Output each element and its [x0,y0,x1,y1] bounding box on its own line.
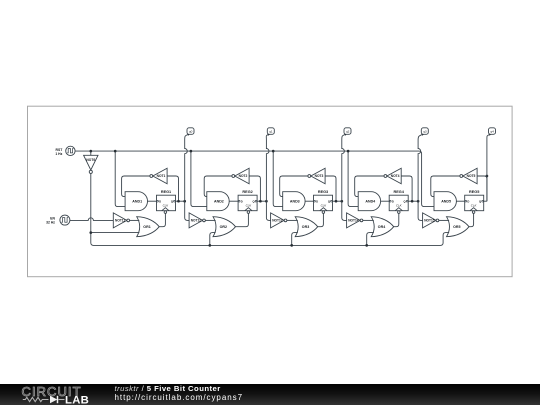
wire REG5 Q output [484,200,487,202]
junction Q0 / q0 net [183,200,186,203]
flag pointer q1 [268,134,270,136]
wire bus to OR4 lower input [367,233,374,246]
node q2 flag [344,128,351,135]
wire NOT4 output to AND4 upper input [355,176,384,197]
svg-text:Q: Q [252,199,254,203]
junction bus / OR4 tick [365,244,368,247]
wire q0 vertical net [185,140,188,201]
clock bubble REG2 [247,211,250,214]
svg-text:NOT2: NOT2 [239,174,248,178]
svg-text:AND2: AND2 [214,200,224,204]
svg-text:q4: q4 [490,130,494,134]
svg-text:NOT6: NOT6 [86,158,95,162]
voltage source V2 EN 32 Hz [60,215,70,225]
wire NOT15 output to OR5 upper input [439,219,449,221]
logo diode symbol [50,396,57,403]
svg-text:Q: Q [171,199,173,203]
svg-text:OR5: OR5 [453,225,460,229]
NOT gate NOT6 (RST inverter) [90,151,92,155]
svg-text:AND3: AND3 [290,200,300,204]
junction NOT6 rail / OR1 branch [89,231,92,234]
wire q2 vertical net [342,140,345,201]
flag pointer q3 [422,134,424,136]
flag pointer q4 [489,134,491,136]
wire q2 flag lead [342,134,345,140]
svg-text:CLK: CLK [396,204,403,208]
svg-text:NOT5: NOT5 [467,174,476,178]
clock bubble REG4 [398,211,401,214]
node q1 flag [267,128,274,135]
wire AND3 output to REG3 D [305,200,313,202]
AND gate AND4 [358,192,380,211]
node q4 flag [489,128,496,135]
wire NOT12 output to OR2 upper input [205,219,215,221]
svg-text:OR3: OR3 [302,225,309,229]
svg-text:CLK: CLK [246,204,253,208]
junction bus / OR2 tick [208,244,211,247]
svg-text:D: D [467,199,469,203]
wire NOT2 output to AND2 upper input [204,176,232,197]
junction RST / NOT6 [89,150,92,153]
svg-text:OR4: OR4 [378,225,385,229]
node q0 flag [187,128,194,135]
svg-text:D: D [316,199,318,203]
wire REG4 Q output [408,200,418,202]
junction Q0 / NOT1 input [177,200,180,203]
junction Q3 / NOT4 input [411,200,414,203]
NOT gate NOT11 (clock gate) [113,213,127,228]
NOT gate NOT4 (top feedback inverter) [387,168,401,184]
svg-text:Q: Q [479,199,481,203]
wire NOT6 to OR1 lower input [91,232,140,234]
svg-text:AND4: AND4 [365,200,375,204]
wire NOT1 output to AND1 upper input [122,176,150,197]
svg-text:D: D [392,199,394,203]
wire OR2 output to REG2 CLK [236,213,249,227]
logo resistor zigzag [23,397,49,401]
wire NOT1 input from REG1 Q [167,176,178,201]
svg-text:Q: Q [404,199,406,203]
junction Q2 / q2 net [340,200,343,203]
wire q3 to NOT15 input [418,201,423,220]
junction RST bus / stage 1 drop [114,150,117,153]
svg-text:LAB: LAB [65,395,89,405]
svg-text:OR2: OR2 [220,225,227,229]
clock edge caret REG4 [395,208,402,211]
svg-text:q1: q1 [269,130,273,134]
OR gate OR1 [137,217,160,237]
OR gate OR4 [371,217,394,237]
clock bubble REG3 [322,211,325,214]
wire RST drop to AND2 lower input [191,151,207,207]
svg-text:AND1: AND1 [132,200,142,204]
wire q1 to NOT13 input [266,201,270,220]
junction RST bus / stage 3 drop [272,150,275,153]
svg-text:NOT4: NOT4 [391,174,400,178]
clock edge caret REG2 [245,208,252,211]
svg-text:32 Hz: 32 Hz [46,220,55,224]
svg-text:REG2: REG2 [242,190,252,194]
svg-text:NOT15: NOT15 [424,219,435,223]
NOT gate NOT15 (clock gate) [423,213,437,228]
NOT gate NOT12 (clock gate) [189,213,203,228]
svg-text:NOT13: NOT13 [272,219,283,223]
junction RST bus / stage 4 drop [347,150,350,153]
svg-text:Q: Q [328,199,330,203]
wire q0 to NOT12 input [185,201,189,220]
D flip-flop REG4 [389,195,408,211]
wire RST horizontal bus from V1 across stages, ends down into AND5 [75,151,434,207]
svg-text:OR1: OR1 [143,225,150,229]
wire NOT11 output to OR1 upper input [129,219,139,221]
clock bubble REG1 [164,211,167,214]
wire AND4 output to REG4 D [381,200,390,202]
AND gate AND1 [125,192,147,211]
NOT gate NOT14 (clock gate) [347,213,361,228]
svg-text:REG4: REG4 [394,190,405,194]
NOT gate NOT3 (top feedback inverter) [311,168,325,184]
NOT gate NOT1 (top feedback inverter) [153,168,167,184]
wire NOT14 output to OR4 upper input [363,219,374,221]
svg-text:REG3: REG3 [318,190,328,194]
wire AND5 output to REG5 D [456,200,464,202]
flag pointer q0 [187,134,189,136]
wire OR4 output to REG4 CLK [394,213,399,227]
svg-text:q3: q3 [423,130,427,134]
flag pointer q2 [344,134,346,136]
wire bus to OR3 lower input [292,233,298,246]
voltage source V1 RST 1 Hz [66,146,75,155]
wire AND1 output to REG1 D [148,200,157,202]
svg-text:CLK: CLK [321,204,328,208]
svg-text:NOT1: NOT1 [157,174,166,178]
NOT gate NOT2 (top feedback inverter) [235,168,249,184]
wire NOT4 input from REG4 Q [401,176,412,201]
wire q3 vertical net [418,140,421,201]
wire q2 to NOT14 input [342,201,347,220]
clock bubble REG5 [472,211,475,214]
wire RST drop to AND4 lower input [348,151,358,207]
svg-text:D: D [241,199,243,203]
wire NOT3 input from REG3 Q [325,176,336,201]
wire RST drop to AND3 lower input [273,151,283,207]
wire AND2 output to REG2 D [229,200,238,202]
wire REG2 Q output [257,200,266,202]
junction Q2 / NOT3 input [335,200,338,203]
svg-text:CLK: CLK [163,204,170,208]
junction Q1 / q1 net [265,200,268,203]
wire NOT6 output down left rail [91,173,449,245]
wire q4 flag lead [487,134,490,140]
wire q4 vertical net [486,140,488,201]
AND gate AND3 [283,192,305,211]
wire NOT5 output to AND5 upper input [431,176,460,197]
wire OR1 output to REG1 CLK [159,213,165,227]
junction q4 / NOT5 input [486,175,489,178]
svg-text:1 Hz: 1 Hz [55,152,62,156]
wire bus to OR2 lower input [210,233,216,246]
D flip-flop REG5 [465,195,484,211]
NOT gate NOT5 (top feedback inverter) [463,168,477,184]
svg-text:q2: q2 [346,130,350,134]
wire q1 vertical net [266,140,269,201]
node q3 flag [421,128,428,135]
wire RST drop to AND1 lower input [115,151,125,207]
D flip-flop REG2 [238,195,257,211]
NOT gate NOT13 (clock gate) [271,213,285,228]
OR gate OR5 [447,217,470,237]
svg-text:NOT14: NOT14 [348,219,359,223]
junction RST bus / stage 2 drop [190,150,193,153]
svg-text:REG1: REG1 [161,190,171,194]
wire NOT2 input from REG2 Q [249,176,260,201]
svg-text:NOT3: NOT3 [315,174,324,178]
AND gate AND2 [207,192,229,211]
OR gate OR3 [295,217,318,237]
wire q1 flag lead [266,134,268,140]
D flip-flop REG1 [157,195,176,211]
svg-text:CLK: CLK [471,204,478,208]
wire NOT5 input from REG5 Q [477,176,487,201]
OR gate OR2 [213,217,236,237]
wire REG3 Q output [333,200,342,202]
wire EN to NOT11 input (hops NOT6 rail) [70,218,113,221]
wire q3 flag lead [418,134,422,140]
clock edge caret REG1 [162,208,169,211]
svg-text:D: D [159,199,161,203]
svg-text:NOT12: NOT12 [191,219,202,223]
wire q0 flag lead [185,134,189,140]
wire NOT3 output to AND3 upper input [280,176,308,197]
clock edge caret REG3 [320,208,327,211]
svg-text:REG5: REG5 [469,190,479,194]
wire REG1 Q output [176,200,185,202]
svg-text:AND5: AND5 [441,200,451,204]
clock edge caret REG5 [470,208,477,211]
D flip-flop REG3 [314,195,333,211]
schematic border frame [28,106,513,277]
wire NOT13 output to OR3 upper input [287,219,298,221]
wire OR5 output to REG5 CLK [469,213,474,227]
svg-text:NOT11: NOT11 [115,219,125,223]
junction Q1 / NOT2 input [259,200,262,203]
AND gate AND5 [434,192,456,211]
junction bus / OR3 tick [290,244,293,247]
junction Q3 / q3 net [417,200,420,203]
svg-text:q0: q0 [189,130,193,134]
wire OR3 output to REG3 CLK [318,213,324,227]
